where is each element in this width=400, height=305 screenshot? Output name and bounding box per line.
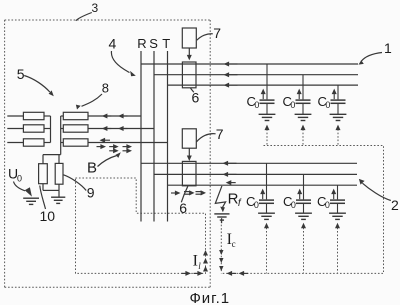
svg-text:0: 0 [254, 200, 259, 210]
svg-text:0: 0 [254, 100, 259, 110]
svg-text:R: R [137, 36, 146, 51]
svg-text:6: 6 [192, 89, 200, 105]
svg-text:4: 4 [109, 36, 117, 52]
svg-text:7: 7 [213, 25, 221, 41]
svg-text:3: 3 [92, 1, 99, 15]
svg-text:0: 0 [325, 200, 330, 210]
svg-text:0: 0 [290, 100, 295, 110]
svg-text:0: 0 [325, 100, 330, 110]
svg-text:0: 0 [291, 200, 296, 210]
svg-text:8: 8 [102, 81, 109, 96]
svg-text:6: 6 [179, 200, 187, 216]
svg-text:S: S [149, 36, 158, 51]
svg-text:1: 1 [384, 40, 392, 56]
svg-text:T: T [162, 36, 170, 51]
svg-text:7: 7 [216, 126, 224, 142]
svg-text:9: 9 [87, 185, 95, 201]
svg-text:I: I [193, 253, 198, 270]
svg-text:0: 0 [17, 174, 22, 184]
svg-text:2: 2 [391, 197, 399, 213]
svg-text:10: 10 [40, 208, 56, 224]
svg-text:Фиг.1: Фиг.1 [190, 290, 230, 305]
svg-text:B: B [87, 160, 97, 177]
svg-text:c: c [232, 239, 236, 249]
svg-text:5: 5 [17, 66, 25, 82]
